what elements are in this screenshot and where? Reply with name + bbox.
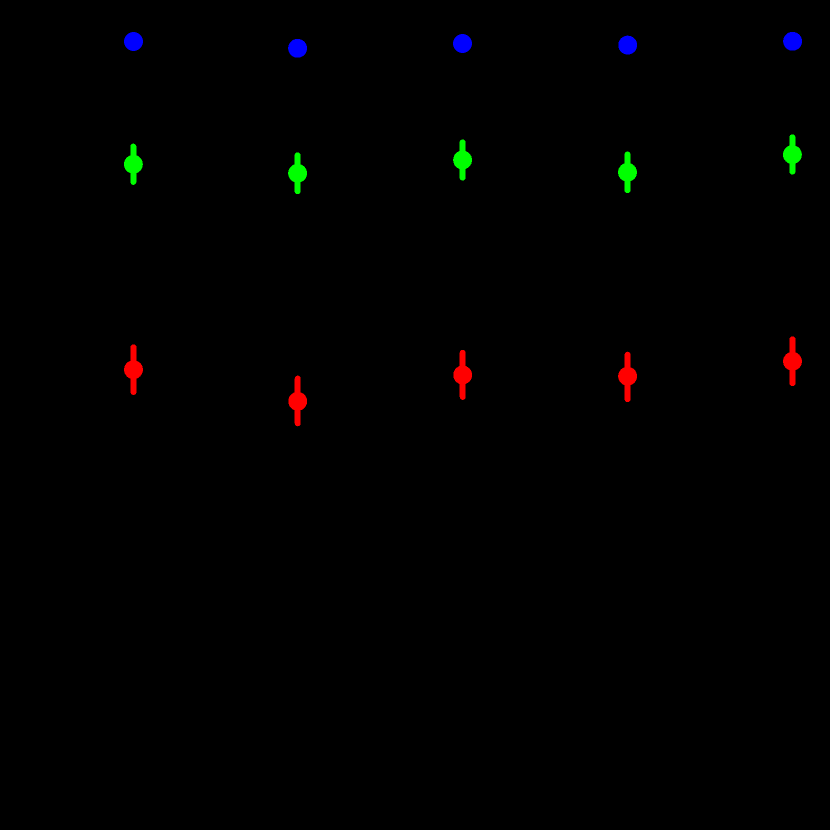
green point 1 with error bar [124,147,143,182]
red point 2 with error bar [288,379,307,424]
blue point 4 [618,36,637,55]
blue point 2 [288,39,307,58]
green point 2 with error bar [288,155,307,191]
red point 1 with error bar [124,347,143,392]
green point 4 with error bar [618,155,637,191]
blue point 1 [124,32,143,51]
blue point 5 [783,32,802,51]
red point 4 with error bar [618,355,637,399]
red point 5 with error bar [783,339,802,383]
red point 3 with error bar [453,353,472,397]
green point 5 with error bar [783,137,802,171]
green point 3 with error bar [453,143,472,178]
blue point 3 [453,34,472,53]
